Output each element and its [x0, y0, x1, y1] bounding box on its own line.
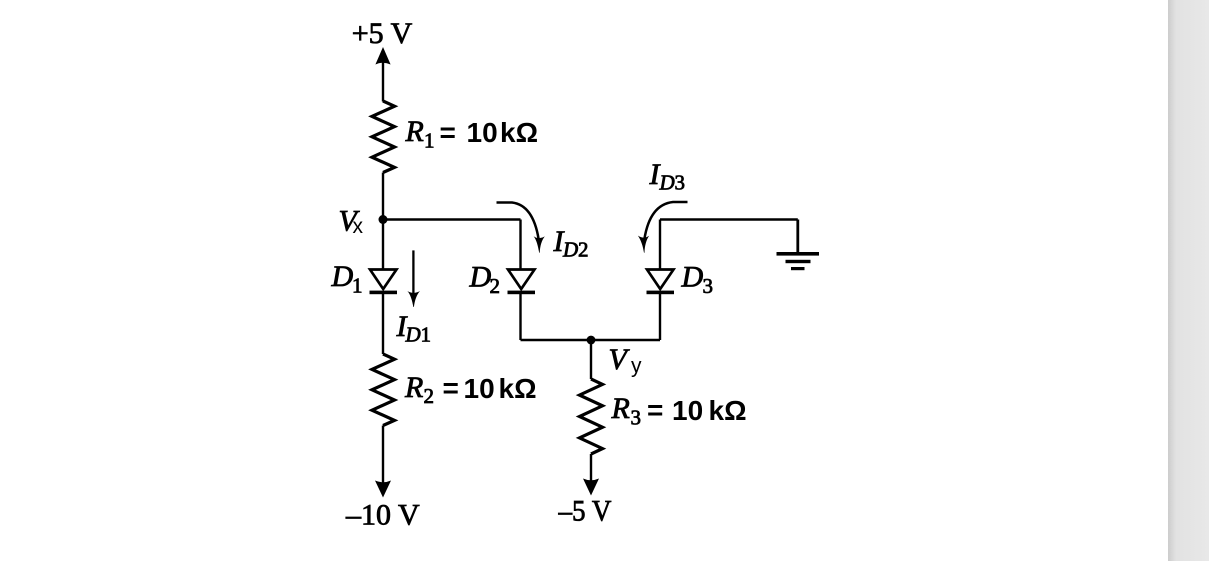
label R2 = 10 kOhm [404, 371, 537, 408]
wire R2 to -10V supply arrow [375, 426, 391, 498]
svg-text:kΩ: kΩ [500, 117, 538, 148]
wire D2 to bottom rail [519, 294, 521, 340]
label D2 [469, 261, 501, 299]
svg-text:=: = [443, 373, 459, 404]
svg-text:=: = [647, 395, 663, 426]
resistor R1 [372, 101, 395, 173]
svg-text:D: D [659, 171, 675, 195]
label Vy [609, 343, 643, 378]
label ID2 [553, 225, 589, 262]
svg-text:3: 3 [631, 406, 642, 430]
wire: bottom rail from D2 to D3 [521, 339, 661, 341]
svg-text:–10 V: –10 V [345, 499, 420, 532]
label R3 = 10 kOhm [611, 392, 747, 430]
label D1 [331, 260, 363, 298]
svg-text:=: = [440, 117, 456, 148]
diode D3 [647, 270, 675, 295]
current arrow ID1 [407, 250, 420, 307]
svg-text:D: D [405, 323, 421, 347]
wire node Vx to D1 [382, 220, 384, 270]
svg-text:R: R [404, 371, 423, 404]
svg-text:y: y [631, 355, 642, 378]
svg-text:x: x [353, 215, 364, 238]
svg-text:1: 1 [424, 128, 435, 152]
ground [777, 252, 820, 270]
svg-text:1: 1 [421, 323, 432, 347]
svg-text:+5 V: +5 V [352, 17, 413, 50]
node Vy [587, 336, 596, 345]
svg-text:kΩ: kΩ [499, 373, 537, 404]
wire D3 to top rail [659, 220, 661, 270]
wire: top rail from D3 to ground [660, 218, 798, 220]
wire R3 to -5V supply arrow [583, 454, 599, 496]
svg-text:–5 V: –5 V [558, 495, 612, 528]
svg-text:3: 3 [675, 171, 686, 195]
diode D1 [370, 270, 398, 295]
svg-text:2: 2 [490, 274, 501, 298]
node Vx [379, 215, 388, 224]
svg-text:D: D [681, 261, 704, 294]
svg-text:2: 2 [424, 384, 435, 408]
svg-text:1: 1 [352, 274, 363, 298]
resistor R2 [372, 354, 395, 426]
wire: ground drop [796, 220, 799, 254]
wire D3 to bottom rail [659, 294, 661, 340]
label R1 = 10 kOhm [405, 115, 539, 152]
wire R1 to node Vx [382, 173, 384, 220]
wire: D2 branch corner (top rail down to D2) [519, 220, 521, 270]
label Vx [339, 205, 364, 239]
label ID3 [649, 158, 686, 195]
svg-text:D: D [331, 260, 354, 293]
svg-text:R: R [611, 392, 630, 425]
svg-text:10: 10 [672, 395, 703, 426]
svg-text:D: D [469, 261, 492, 294]
wire node Vy to R3 [590, 340, 592, 379]
svg-text:2: 2 [578, 238, 589, 262]
svg-text:D: D [562, 238, 578, 262]
label ID1 [396, 310, 432, 347]
wire: top rail from node Vx to D2 branch [383, 218, 521, 220]
resistor R3 [580, 379, 603, 454]
svg-text:10: 10 [467, 117, 498, 148]
current arrow ID2 (curved) [497, 203, 545, 253]
wire: +5V supply arrow (up) [375, 47, 390, 102]
svg-text:kΩ: kΩ [709, 395, 747, 426]
wire D1 to R2 [382, 294, 384, 354]
svg-text:3: 3 [703, 274, 714, 298]
svg-text:R: R [405, 115, 424, 148]
current arrow ID3 (curved) [638, 202, 688, 253]
label D3 [681, 261, 714, 299]
svg-text:10: 10 [464, 373, 495, 404]
diode D2 [508, 270, 536, 295]
